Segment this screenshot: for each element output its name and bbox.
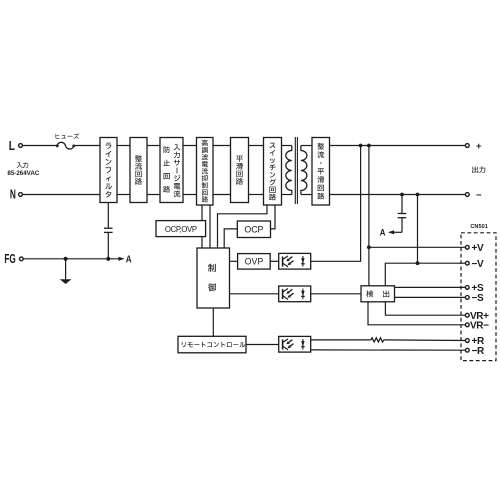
wire -V line	[385, 263, 465, 286]
resistor R1 on +R line	[371, 338, 384, 342]
wire N line: rectifier-inrush	[147, 194, 160, 196]
wire transformer secondary to output rectifier top	[301, 145, 312, 147]
svg-text:VR−: VR−	[470, 321, 489, 332]
wire FG line	[23, 258, 118, 260]
wire L line: rectifier-inrush	[147, 145, 160, 147]
block output rectifier/smoothing (整流・平滑回路)	[312, 138, 330, 206]
wire detector to terminal -S	[395, 296, 466, 298]
junction dot FG/ground	[64, 257, 68, 261]
wire switching to transformer primary top	[282, 145, 292, 147]
wire switching to transformer primary bottom	[282, 194, 292, 196]
label fuse (ヒューズ)	[56, 133, 80, 139]
junction dot + line / +V rail	[367, 144, 371, 148]
input terminal L	[19, 144, 23, 148]
svg-text:85-264VAC: 85-264VAC	[7, 170, 39, 177]
block line filter (ラインフィルタ)	[100, 138, 117, 203]
capacitor C2 output Y-cap	[401, 195, 403, 214]
wire - output line	[330, 194, 466, 196]
svg-text:+V: +V	[472, 243, 484, 254]
svg-text:A: A	[380, 228, 386, 239]
terminal VR+	[465, 313, 469, 317]
svg-text:OCP,OVP: OCP,OVP	[165, 225, 197, 234]
wire switching block to OCP	[271, 205, 276, 229]
wire -V rail	[417, 195, 419, 264]
output terminal +	[465, 144, 469, 148]
terminal -S	[465, 296, 469, 300]
wire C2 to node A	[394, 231, 402, 233]
terminal FG	[19, 257, 23, 261]
svg-text:OCP: OCP	[244, 225, 263, 235]
wire OCP,OVP to control	[201, 237, 203, 248]
wire PC3 to terminal -R	[311, 349, 466, 351]
wire harmonic block to control	[209, 205, 211, 248]
wire detector to VR- line	[368, 302, 465, 325]
wire control to remote control	[212, 308, 214, 336]
fuse F1	[57, 142, 74, 149]
svg-text:−S: −S	[472, 293, 484, 304]
junction dot - line / -V rail	[416, 193, 420, 197]
connector CN501 outline	[461, 233, 496, 361]
svg-text:+: +	[476, 141, 482, 152]
transformer T1 secondary winding	[301, 146, 307, 195]
terminal -V	[465, 261, 469, 265]
block harmonic current suppressor (高調波電流抑制回路)	[197, 138, 214, 206]
photocoupler PC2	[279, 286, 311, 302]
wire N to line filter	[23, 194, 101, 196]
junction dot FG/C1	[106, 257, 110, 261]
junction dot + line / OVP opto rail	[359, 144, 363, 148]
junction dot -V rail / -V line	[416, 261, 420, 265]
svg-text:CN501: CN501	[470, 224, 487, 230]
block inrush current limiter (入力サージ電流防止回路)	[160, 138, 183, 203]
photocoupler PC1	[279, 253, 311, 269]
node A arrow (left)	[118, 257, 124, 261]
svg-text:FG: FG	[4, 251, 15, 266]
svg-text:−: −	[476, 190, 482, 201]
junction dot - line / Y-cap	[400, 193, 404, 197]
label output (出力)	[472, 166, 485, 173]
wire control to OVP	[230, 260, 238, 262]
block remote control (リモートコントロール)	[178, 336, 246, 353]
wire PC1 to + line rail	[311, 146, 361, 262]
terminal +R	[465, 339, 469, 343]
wire N line: smoothing-switching	[249, 194, 264, 196]
svg-text:OVP: OVP	[245, 257, 264, 267]
capacitor C1 line-filter to FG	[107, 203, 109, 229]
wire control to photocoupler PC2	[230, 293, 279, 295]
wire L line: filter-rectifier	[117, 145, 130, 147]
junction dot +V rail / +V line	[367, 245, 371, 249]
wire + output line	[330, 145, 466, 147]
svg-text:A: A	[126, 255, 132, 266]
transformer T1 core	[294, 137, 296, 204]
control block (制御)	[197, 248, 230, 308]
wire N line: inrush-harmonic	[183, 194, 197, 196]
wire +V rail	[368, 146, 370, 286]
block switching circuit (スイッチング回路)	[264, 138, 282, 206]
wire N line: harmonic-smoothing	[213, 194, 231, 196]
wire switching block to control	[218, 205, 268, 248]
transformer T1 primary winding	[286, 146, 292, 195]
input terminal N	[19, 193, 23, 197]
wire detector to terminal +S	[395, 286, 466, 288]
wire PC2 to detector	[311, 293, 361, 295]
output terminal -	[465, 193, 469, 197]
wire detector to VR+ line	[385, 302, 465, 315]
svg-text:L: L	[9, 138, 15, 153]
node A arrow (right)	[388, 230, 394, 234]
wire L line: inrush-harmonic	[183, 145, 197, 147]
block OVP	[238, 254, 271, 270]
wire N line: filter-rectifier	[117, 194, 130, 196]
terminal +S	[465, 286, 469, 290]
svg-text:N: N	[10, 188, 16, 202]
wire transformer secondary to output rectifier bottom	[301, 194, 312, 196]
wire fuse to line filter	[74, 145, 100, 147]
ground symbol	[65, 259, 67, 280]
wire +V line	[369, 246, 465, 248]
block smoothing (平滑回路)	[231, 138, 249, 203]
detector block (検出)	[361, 286, 395, 302]
wire L line: smoothing-switching	[249, 145, 264, 147]
wire PC3 to +R line	[311, 339, 371, 341]
terminal VR-	[465, 323, 469, 327]
wire OVP to photocoupler PC1	[270, 260, 279, 262]
photocoupler PC3	[279, 336, 311, 352]
block OCP,OVP	[156, 221, 206, 237]
terminal +V	[465, 245, 469, 249]
wire L to fuse	[23, 145, 58, 147]
label input (入力)	[17, 162, 29, 168]
block rectifier (整流回路)	[130, 138, 147, 203]
block OCP	[237, 221, 270, 238]
wire harmonic block to OCP,OVP	[201, 205, 203, 221]
svg-text:−V: −V	[472, 259, 484, 270]
wire OCP to control	[224, 229, 237, 248]
wire L line: harmonic-smoothing	[213, 145, 231, 147]
wire remote control to photocoupler PC3	[246, 344, 279, 346]
svg-text:−R: −R	[472, 346, 485, 357]
terminal -R	[465, 348, 469, 352]
wire R1 to terminal +R	[384, 339, 466, 342]
